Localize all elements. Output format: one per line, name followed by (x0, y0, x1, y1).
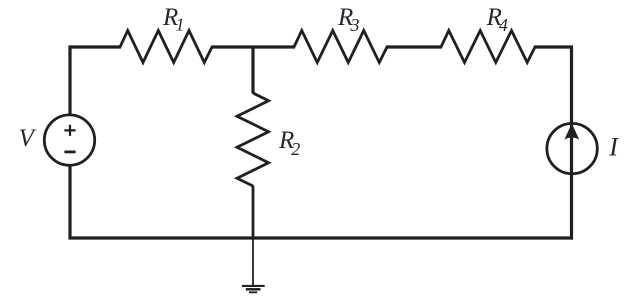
voltage source plus sign (64, 125, 75, 136)
svg-text:I: I (608, 132, 619, 161)
svg-text:1: 1 (176, 14, 185, 34)
node A stub wire from top wire down to R2 (251, 47, 254, 93)
current source arrowhead (564, 123, 579, 139)
svg-text:3: 3 (350, 15, 360, 35)
ground lead (252, 238, 254, 285)
wire top middle segment R1 to R3 through node (211, 45, 295, 48)
ground bar 1 (242, 285, 265, 287)
wire left vertical lower, bottom wire (70, 166, 573, 238)
resistor R1 (120, 31, 212, 63)
wire top-left segment and left vertical upper (70, 47, 121, 115)
resistor R3 (294, 31, 387, 63)
resistor R4 (441, 31, 535, 63)
resistor R2 (237, 93, 269, 186)
wire top-right segment and right vertical (arrow shaft) (534, 47, 572, 240)
svg-text:2: 2 (291, 139, 300, 159)
voltage source minus sign (64, 150, 75, 153)
ground bar 3 (249, 291, 257, 293)
wire top segment R3 to R4 (386, 45, 442, 48)
wire R2 bottom to ground node (252, 186, 255, 240)
svg-text:4: 4 (499, 15, 508, 35)
current source I circle (547, 123, 597, 173)
svg-text:V: V (19, 125, 37, 152)
ground bar 2 (246, 288, 261, 291)
voltage source V circle (44, 115, 94, 165)
